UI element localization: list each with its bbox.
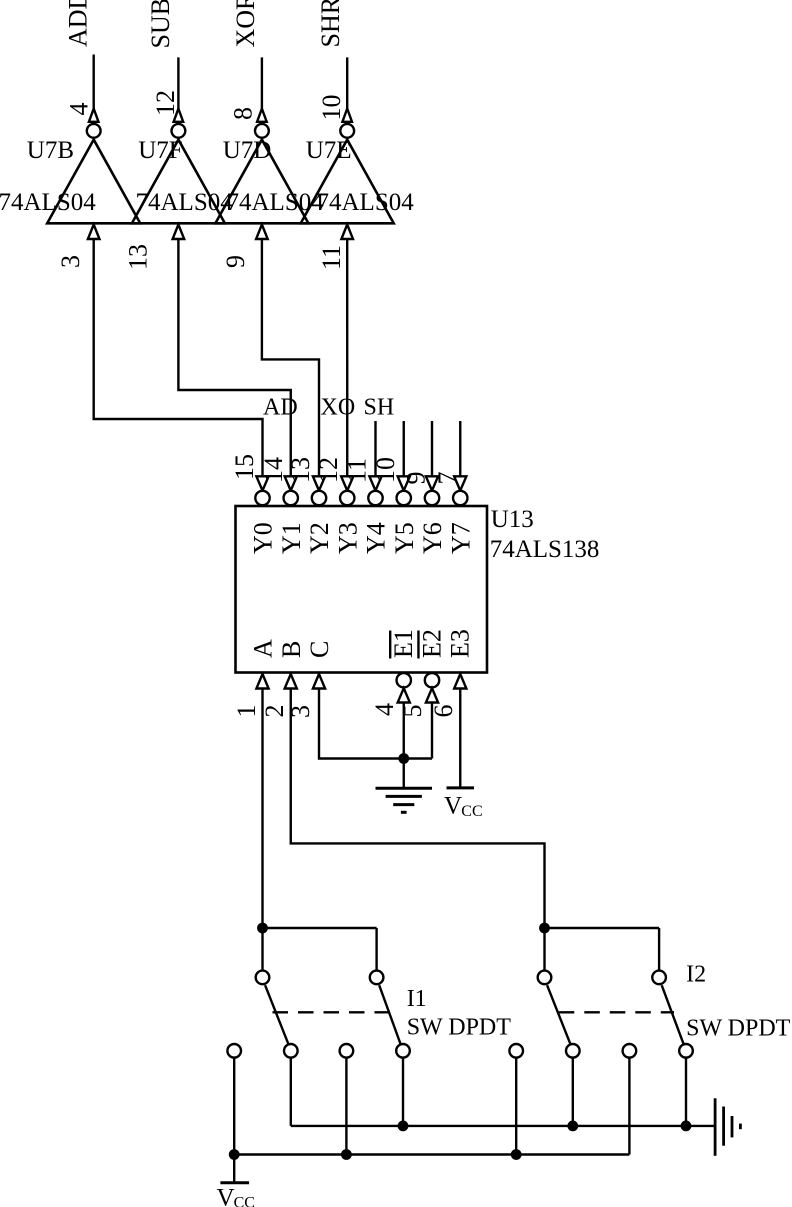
gnd rail wire	[291, 1125, 715, 1127]
U7F bubble	[172, 124, 186, 138]
svg-text:2: 2	[260, 705, 289, 718]
svg-text:Y3: Y3	[333, 522, 362, 554]
wire I2 throw1b to Vcc rail	[628, 1058, 630, 1155]
ground (earth) for E1 E2 C	[376, 788, 433, 812]
wire SHR to U7E output	[346, 57, 348, 110]
I2 pole b terminal	[652, 971, 666, 985]
wire to I2 pole b	[658, 928, 660, 971]
svg-text:CC: CC	[461, 803, 482, 820]
wire stub U13.10	[403, 421, 405, 477]
svg-text:15: 15	[230, 454, 259, 480]
inverter U7D	[215, 140, 308, 224]
U7B input arrow pin 3	[88, 225, 100, 240]
junction A/I1 poles	[258, 924, 266, 932]
svg-text:12: 12	[314, 457, 343, 483]
svg-text:U13: U13	[491, 506, 534, 533]
wire junction to ground	[403, 759, 405, 788]
svg-text:74ALS138: 74ALS138	[490, 536, 600, 563]
svg-text:AD: AD	[263, 395, 298, 421]
U13 pin 12 Y3	[314, 457, 362, 554]
svg-text:7: 7	[433, 472, 462, 485]
U7B output arrow	[89, 109, 99, 122]
wire I1 throw2b to gnd rail	[402, 1058, 404, 1126]
wire ADD to U7B output	[92, 55, 94, 111]
wire U7D.9 to U13.13	[262, 239, 319, 477]
svg-text:E3: E3	[446, 629, 475, 658]
U13 pin 2 B	[260, 641, 306, 718]
U7D output arrow	[257, 109, 267, 122]
wire U13.6 E3 to Vcc	[459, 689, 461, 788]
svg-text:3: 3	[56, 255, 85, 268]
I1 lever link (dashed)	[273, 1011, 392, 1013]
svg-text:SH: SH	[364, 395, 395, 421]
I1 lever b	[379, 985, 400, 1043]
svg-text:SHR: SHR	[316, 0, 345, 48]
svg-text:12: 12	[151, 90, 180, 116]
I1 pole a terminal	[256, 971, 270, 985]
svg-text:E1: E1	[389, 629, 418, 658]
svg-text:B: B	[277, 641, 306, 658]
svg-text:CC: CC	[234, 1195, 255, 1207]
U13 pin 6 E3	[429, 629, 475, 717]
wire U13.1 A down to switch I1	[261, 689, 263, 929]
svg-text:9: 9	[221, 255, 250, 268]
I1 lever a	[265, 985, 288, 1043]
U13 pin 7 Y7	[433, 472, 475, 555]
U7B bubble	[87, 124, 101, 138]
wire I1 throw1a to Vcc rail	[233, 1058, 235, 1155]
I1 throw 1a terminal	[227, 1044, 241, 1058]
svg-text:74ALS04: 74ALS04	[317, 189, 415, 216]
Vcc rail wire	[234, 1153, 629, 1155]
svg-text:U7E: U7E	[306, 137, 352, 164]
U7D input arrow pin 9	[256, 225, 268, 240]
U13 pin 5 E2 (active low)	[398, 629, 446, 717]
U13 pin 10 Y5	[371, 457, 419, 554]
wire stub U13.11	[374, 421, 376, 477]
svg-text:14: 14	[259, 457, 288, 483]
junction E1/C/E2	[400, 754, 408, 762]
wire to I1 pole b	[375, 928, 377, 971]
svg-text:74ALS04: 74ALS04	[227, 189, 325, 216]
svg-text:8: 8	[229, 107, 258, 120]
svg-text:10: 10	[317, 95, 346, 121]
svg-text:A: A	[249, 639, 278, 658]
svg-text:Y7: Y7	[446, 522, 475, 554]
wire stub U13.9	[431, 421, 433, 477]
svg-text:U7D: U7D	[223, 137, 272, 164]
svg-text:E2: E2	[417, 629, 446, 658]
wire to I1 pole a	[261, 928, 263, 971]
svg-text:11: 11	[317, 245, 346, 270]
svg-text:Y6: Y6	[418, 522, 447, 554]
U13 pin 1 A	[232, 639, 278, 718]
I2 throw 2a terminal	[566, 1044, 580, 1058]
I2 lever link (dashed)	[559, 1011, 674, 1013]
U13 pin 9 Y6	[401, 472, 447, 555]
wire I2 throw1a to Vcc rail	[515, 1058, 517, 1155]
svg-text:I1: I1	[407, 986, 427, 1012]
wire U13.2 B down and over to switch I2	[291, 689, 545, 929]
svg-text:9: 9	[401, 472, 430, 485]
U13 pin 3 C	[286, 641, 334, 718]
I1 throw 2a terminal	[284, 1044, 298, 1058]
I1 throw 2b terminal	[396, 1044, 410, 1058]
svg-text:6: 6	[429, 705, 458, 718]
svg-text:11: 11	[342, 458, 371, 483]
wire U13.4 E1 down	[403, 703, 405, 759]
power Vcc bottom	[220, 1181, 249, 1184]
svg-text:1: 1	[232, 705, 261, 718]
svg-text:13: 13	[124, 244, 153, 270]
wire I1 throw2a to gnd rail	[290, 1058, 292, 1126]
U13 pin 14 Y1	[259, 457, 306, 554]
U7E bubble	[340, 124, 354, 138]
inverter U7B	[47, 140, 140, 224]
wire I2 throw2a to gnd rail	[572, 1058, 574, 1126]
svg-text:U7B: U7B	[27, 137, 74, 164]
svg-text:XO: XO	[321, 395, 356, 421]
svg-text:C: C	[305, 641, 334, 658]
svg-text:Y4: Y4	[362, 522, 391, 554]
U13 pin 4 E1 (active low)	[370, 629, 418, 716]
svg-text:V: V	[444, 793, 462, 820]
U7E output arrow	[342, 109, 352, 122]
I2 lever b	[662, 985, 684, 1043]
svg-text:74ALS04: 74ALS04	[0, 189, 96, 216]
svg-text:5: 5	[398, 705, 427, 718]
U7D bubble	[255, 124, 269, 138]
svg-text:SW DPDT: SW DPDT	[686, 1016, 791, 1042]
inverter U7E	[301, 140, 394, 224]
junction Vcc rail left	[230, 1150, 238, 1158]
junction Vcc rail I2 throw1a	[512, 1150, 520, 1158]
I2 throw 1b terminal	[623, 1044, 637, 1058]
wire XOR to U7D output	[261, 57, 263, 110]
U7E input arrow pin 11	[341, 225, 353, 240]
junction B/I2 poles	[540, 924, 548, 932]
U7F input arrow pin 13	[173, 225, 185, 240]
I2 lever a	[547, 985, 570, 1043]
wire U13.5 E2 down	[431, 703, 433, 759]
junction gnd rail I2 throw2b	[682, 1122, 690, 1130]
svg-text:Y1: Y1	[277, 522, 306, 554]
svg-text:Y2: Y2	[305, 522, 334, 554]
svg-text:ADD: ADD	[64, 0, 93, 47]
wire stub U13.7	[459, 421, 461, 477]
junction gnd rail I1 throw2b	[399, 1122, 407, 1130]
svg-text:SUB: SUB	[146, 0, 175, 49]
svg-text:13: 13	[286, 457, 315, 483]
svg-text:Y5: Y5	[390, 522, 419, 554]
svg-text:XOR: XOR	[231, 0, 260, 48]
I2 throw 2b terminal	[679, 1044, 693, 1058]
wire to I2 pole a	[543, 928, 545, 971]
svg-text:10: 10	[371, 457, 400, 483]
op-amp U13 body	[236, 506, 488, 673]
power Vcc for E3	[447, 786, 475, 789]
inverter U7F	[132, 140, 225, 224]
U13 pin 11 Y4	[342, 458, 390, 554]
wire SUB to U7F output	[177, 57, 179, 110]
svg-text:Y0: Y0	[249, 522, 278, 554]
svg-text:SW DPDT: SW DPDT	[407, 1014, 512, 1040]
wire U13.3 C to enable rail	[319, 689, 432, 759]
svg-text:4: 4	[65, 103, 94, 116]
U7F output arrow	[174, 109, 184, 122]
wire I1 throw1b to Vcc rail	[345, 1058, 347, 1155]
wire Vcc rail down to Vcc symbol	[233, 1155, 235, 1183]
svg-text:4: 4	[370, 703, 399, 716]
wire I2 pole bus	[545, 927, 660, 929]
wire I2 throw2b to gnd rail	[685, 1058, 687, 1126]
wire U7F.13 to U13.14	[178, 239, 290, 477]
wire U7E.11 to U13.12	[346, 239, 348, 477]
junction gnd rail I2 throw2a	[569, 1122, 577, 1130]
junction Vcc rail I1 throw1b	[342, 1150, 350, 1158]
wire I1 pole bus	[263, 927, 377, 929]
svg-text:74ALS04: 74ALS04	[136, 189, 234, 216]
U13 pin 15 Y0	[230, 454, 278, 554]
I1 pole b terminal	[370, 971, 384, 985]
svg-text:U7F: U7F	[138, 137, 182, 164]
U13 pin 13 Y2	[286, 457, 334, 554]
svg-text:I2: I2	[686, 961, 706, 987]
I2 throw 1a terminal	[509, 1044, 523, 1058]
I1 throw 1b terminal	[340, 1044, 354, 1058]
wire U7B.3 to U13.15	[94, 239, 263, 477]
ground (fence) right	[715, 1098, 740, 1156]
I2 pole a terminal	[538, 971, 552, 985]
svg-text:V: V	[217, 1185, 235, 1207]
